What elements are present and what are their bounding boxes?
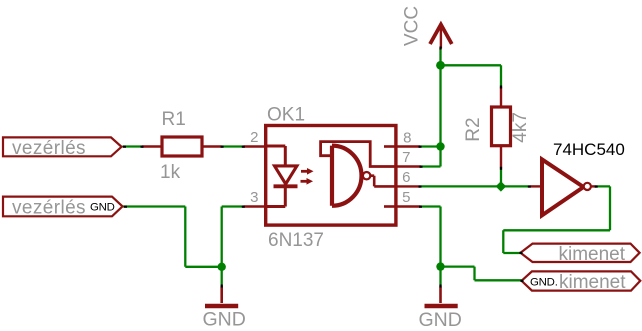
svg-text:GND: GND [90,202,115,214]
wire flag2 run [123,207,222,267]
junction pin 8 node [436,142,444,150]
svg-text:6: 6 [402,169,410,186]
svg-text:R1: R1 [162,109,186,130]
buffer output bubble [584,183,591,190]
pin 2 stub [244,145,266,147]
gate output bubble [363,172,370,179]
junction GND left node [218,263,226,271]
junction VCC [436,61,445,70]
svg-text:8: 8 [403,130,411,147]
gate enable notch and route to pin 7 [321,142,395,167]
svg-text:kimenet: kimenet [559,244,626,265]
wire pin 8 [420,145,441,147]
wire pin 6 to buffer input [420,185,530,187]
ground symbol left [220,287,223,304]
flag GND kimenet [522,271,641,290]
wire junction to flag GND kimenet [441,267,522,281]
svg-text:GND: GND [203,309,246,331]
svg-text:GND: GND [419,309,462,331]
pin 6 stub [396,185,420,187]
svg-text:6N137: 6N137 [268,230,324,251]
pin contact dots [123,47,598,288]
junction GND right node [436,262,444,270]
optocoupler OK1 box [266,126,396,226]
wire flag1 to R1 [123,145,143,147]
pin 5 internal stub [384,205,395,208]
wire junction up to pin 3 [222,207,244,267]
wire VCC junction to R2 top [441,65,502,87]
wire pin 7 elbow [421,147,441,167]
svg-text:OK1: OK1 [267,104,305,125]
LED triangle [275,166,297,184]
wire R1 to OK1 pin 2 [222,145,244,147]
buffer output stub [591,185,597,187]
wire junction down to GND left [221,267,223,287]
pin 7 stub [396,165,421,167]
svg-text:5: 5 [402,189,410,206]
VCC symbol [430,25,452,45]
svg-text:VCC: VCC [402,6,423,46]
LED arrow 2 [301,180,308,183]
LED anode/cathode rails [267,146,285,207]
flag vezérlés [3,137,122,156]
pin 5 stub [396,205,421,207]
svg-text:7: 7 [402,149,410,166]
pin 8 internal stub [384,145,395,148]
wire VCC down to pin8 junction [439,65,441,146]
svg-text:2: 2 [250,129,258,146]
gate output route to pin 6 [371,176,395,187]
flag vezérlés GND [3,197,123,217]
svg-text:4k7: 4k7 [510,112,531,143]
svg-text:1k: 1k [160,162,181,183]
wire buffer output loop to kimenet [503,186,610,253]
wire R2 bottom to diamond [500,169,502,187]
resistor R1 [142,145,222,147]
flag kimenet [521,244,640,262]
resistor R2 [500,87,502,169]
svg-text:GND.: GND. [530,277,558,289]
pin 8 stub [396,145,420,147]
junction diamond R2/pin6 node [496,181,507,191]
ground symbol right [439,287,442,304]
wire pin 5 down [421,207,441,267]
wire VCC stem down [439,49,441,66]
LED cathode bar [274,184,298,188]
svg-text:R2: R2 [463,117,484,141]
svg-text:3: 3 [250,189,258,206]
pin 3 stub [244,205,266,207]
wire junction to GND right [439,267,441,287]
svg-text:vezérlés: vezérlés [12,197,86,218]
svg-text:74HC540: 74HC540 [553,140,625,159]
svg-text:kimenet: kimenet [559,272,626,293]
buffer 74HC540 triangle [542,159,584,215]
svg-text:vezérlés: vezérlés [12,138,86,159]
buffer 74HC540 input stub [530,185,541,187]
LED arrow 1 [301,170,308,173]
gate D body [332,146,362,206]
